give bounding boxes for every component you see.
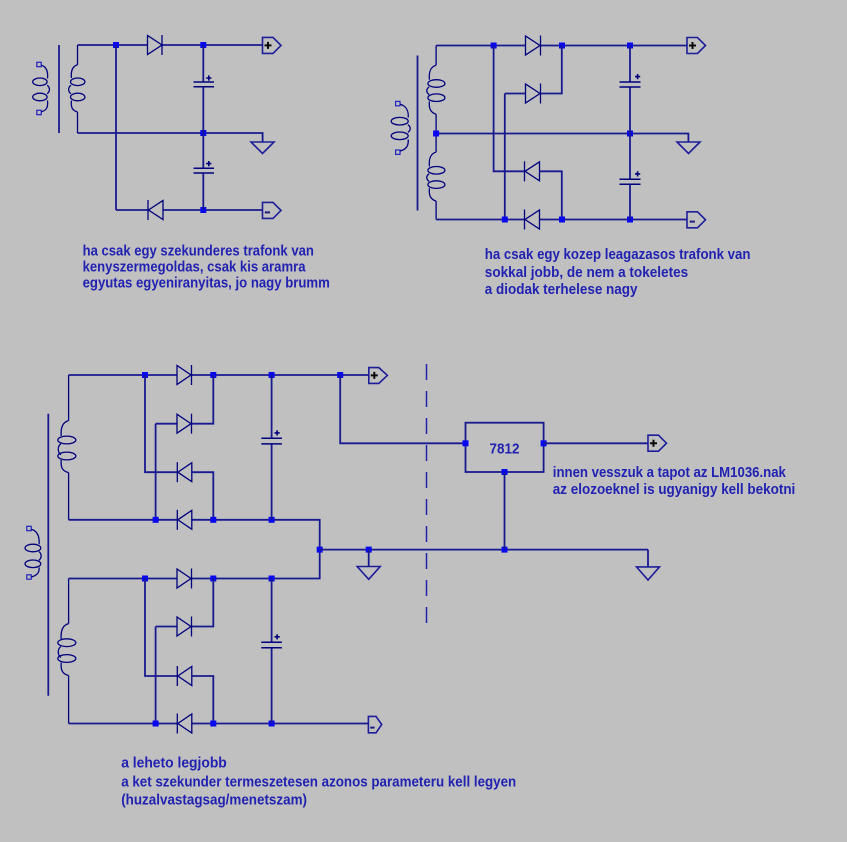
wire cap C6 branch lower <box>271 648 273 724</box>
wire row3 right vertical down to row4 <box>192 472 214 520</box>
svg-text:ha csak egy kozep leagazasos t: ha csak egy kozep leagazasos trafonk van <box>485 247 751 263</box>
wire bridge2 row2 right vertical up <box>192 579 214 627</box>
node top row cap <box>627 43 633 49</box>
node bridge2 row4 mid <box>210 721 216 727</box>
wire regulator feed down and right <box>340 375 465 443</box>
node center cap junction <box>627 131 633 137</box>
wire row3 right to vertical down <box>540 171 562 219</box>
node center tap <box>433 131 439 137</box>
regulator U1 7812 box <box>466 423 544 472</box>
plus sign terminal2 <box>689 42 696 49</box>
terminal negative bridge2 <box>368 716 381 732</box>
node bridge1 row1 regulator takeoff <box>337 372 343 378</box>
capacitor C5 <box>261 430 282 444</box>
node bridge1 row4 left <box>153 517 159 523</box>
svg-text:a leheto legjobb: a leheto legjobb <box>121 756 227 772</box>
diode D10 row4 left-pointing <box>177 510 192 530</box>
transformer T1 primary terminal top <box>37 62 41 66</box>
svg-text:egyutas egyeniranyitas, jo nag: egyutas egyeniranyitas, jo nagy brumm <box>83 276 330 292</box>
diode D7 row1 right-pointing <box>177 365 192 385</box>
plus sign regulator terminal <box>650 440 657 447</box>
transformer T3 core <box>47 414 49 696</box>
wire middle from secondary bottom to ground <box>78 133 263 142</box>
plus sign terminal1 <box>265 42 272 49</box>
wire top from D1 to positive terminal <box>162 44 263 46</box>
wire cap branch lower <box>202 173 204 210</box>
diode D3 top right-pointing <box>526 36 541 56</box>
transformer T2 core <box>417 56 419 211</box>
wire cap C6 branch upper <box>271 579 273 643</box>
transformer T3 primary winding <box>25 529 41 577</box>
diode D8 row2 right-pointing <box>177 414 192 434</box>
node top cap junction <box>200 42 206 48</box>
wire bottom row from D6 to negative terminal <box>540 219 688 221</box>
diode D6 bottom left-pointing <box>525 210 540 230</box>
wire center tap to ground corner <box>436 134 688 143</box>
transformer T3 primary terminal bottom <box>27 575 31 579</box>
capacitor C4 <box>620 171 641 184</box>
svg-text:innen vesszuk a tapot az LM103: innen vesszuk a tapot az LM1036.nak <box>553 465 787 481</box>
wire vertical from row1-left node to row3 <box>145 375 177 472</box>
transformer T2 secondary winding lower <box>427 134 445 220</box>
transformer T1 core <box>58 45 60 133</box>
wire bridge1 bottom row left <box>69 519 178 521</box>
ground symbol circuit1 <box>251 142 274 154</box>
wire ground2 stub <box>647 550 649 567</box>
diode D12 row2 right-pointing <box>177 617 192 637</box>
wire bridge1 top row to diode D7 <box>69 374 177 376</box>
minus sign terminal2 <box>690 221 695 223</box>
wire top row from D3 to positive terminal <box>541 45 688 47</box>
wire cap branch upper <box>629 46 631 83</box>
node top row left <box>491 43 497 49</box>
node bridge1 row4 cap <box>269 517 275 523</box>
node bridge1 row1 cap <box>269 372 275 378</box>
node bridge1 row4 mid <box>210 517 216 523</box>
node bridge2 row1 left <box>142 576 148 582</box>
transformer T3 secondary winding lower <box>58 579 76 724</box>
pin input 7812 <box>463 440 469 446</box>
wire row2 stub to diode D8 <box>156 423 177 425</box>
node middle junction <box>200 130 206 136</box>
pin gnd 7812 <box>502 469 508 475</box>
node center rail ground1 <box>366 547 372 553</box>
ground symbol circuit2 <box>677 142 700 154</box>
wire bridge2 row2 stub to diode D12 <box>156 626 177 628</box>
wire top row from secondary to diode D3 <box>436 45 525 47</box>
wire row2 right vertical up to row1 <box>192 375 214 424</box>
node bridge1 row1 mid <box>210 372 216 378</box>
wire bottom from vertical to diode D2 <box>116 209 148 211</box>
transformer T2 primary winding <box>391 104 410 151</box>
svg-text:(huzalvastagsag/menetszam): (huzalvastagsag/menetszam) <box>121 792 307 808</box>
node bottom row left <box>502 217 508 223</box>
wire row2 right to vertical up <box>541 46 562 94</box>
node center rail regulator gnd <box>502 547 508 553</box>
wire regulator gnd down <box>504 472 506 550</box>
terminal negative circuit2 <box>687 212 706 228</box>
pin output 7812 <box>541 440 547 446</box>
wire cap C5 branch upper <box>271 375 273 438</box>
wire ground1 stub <box>368 550 370 567</box>
terminal positive regulator output <box>648 435 667 451</box>
wire center rail <box>320 549 648 551</box>
terminal positive circuit2 <box>687 38 706 54</box>
wire cap branch lower <box>629 184 631 219</box>
wire bridge2 bottom row left <box>69 723 178 725</box>
diode D9 row3 left-pointing <box>177 462 192 482</box>
minus sign terminal1 <box>265 211 270 213</box>
wire cap C5 branch lower <box>271 444 273 520</box>
transformer T3 secondary winding upper <box>58 375 76 520</box>
dashed separator line <box>426 364 428 628</box>
node bottom row cap <box>627 217 633 223</box>
wire bridge2 row3 right vertical down <box>192 676 214 724</box>
wire vertical from top-left node down to row3 <box>494 46 525 172</box>
wire left vertical down to bottom row <box>115 45 117 210</box>
wire bridge2 top row to diode D11 <box>69 578 177 580</box>
svg-text:az elozoeknel is ugyanigy kell: az elozoeknel is ugyanigy kell bekotni <box>553 482 796 498</box>
svg-text:ha csak egy szekunderes trafon: ha csak egy szekunderes trafonk van <box>83 243 314 259</box>
wire bridge1 top row from D7 to positive terminal <box>192 374 369 376</box>
svg-text:7812: 7812 <box>490 441 520 457</box>
svg-text:a ket szekunder termeszetesen: a ket szekunder termeszetesen azonos par… <box>121 775 516 791</box>
diode D2 <box>148 200 163 220</box>
wire bridge1 bottom row right to center corner <box>192 520 320 550</box>
minus sign bridge2 terminal <box>370 727 374 729</box>
node bridge2 row1 cap <box>269 576 275 582</box>
wire bottom from D2 to negative terminal <box>163 209 263 211</box>
svg-text:kenyszermegoldas, csak kis ara: kenyszermegoldas, csak kis aramra <box>83 259 307 275</box>
wire vertical from bridge2 row1-left node to row3 <box>145 579 177 677</box>
node bridge2 row1 mid <box>210 576 216 582</box>
transformer T2 primary terminal top <box>396 101 400 105</box>
transformer T1 primary terminal bottom <box>37 110 41 114</box>
ground symbol left circuit3 <box>357 567 380 580</box>
wire bridge2 top row from D11 to center corner <box>192 550 320 579</box>
terminal positive circuit1 <box>263 37 282 53</box>
transformer T1 primary winding <box>33 65 50 112</box>
capacitor C1 <box>194 75 215 86</box>
diode D1 <box>148 35 163 55</box>
capacitor C6 <box>261 634 282 648</box>
plus sign bridge1 terminal <box>371 372 378 379</box>
node bottom junction <box>200 207 206 213</box>
wire top from secondary to diode D1 <box>78 44 148 46</box>
terminal negative circuit1 <box>263 202 282 218</box>
wire vertical row2-to-row4 <box>155 424 157 520</box>
wire row2 left stub to diode D4 <box>505 93 526 95</box>
wire regulator output <box>544 442 648 444</box>
terminal positive bridge1 <box>369 368 388 384</box>
node top row mid <box>559 43 565 49</box>
transformer T3 primary terminal top <box>27 526 31 530</box>
ground symbol right circuit3 <box>637 567 660 580</box>
diode D4 second row right-pointing <box>526 84 541 104</box>
svg-text:a diodak terhelese nagy: a diodak terhelese nagy <box>485 282 639 298</box>
transformer T2 primary terminal bottom <box>396 150 400 154</box>
wire vertical bridge2 row2-to-row4 <box>155 627 157 724</box>
node bridge2 row4 cap <box>269 721 275 727</box>
wire cap branch between <box>202 87 204 168</box>
capacitor C3 <box>620 74 641 87</box>
wire cap branch upper <box>202 45 204 82</box>
node top-left junction <box>113 42 119 48</box>
node bridge1 row1 left <box>142 372 148 378</box>
wire vertical row2-to-bottom through center <box>504 94 506 220</box>
diode D5 third row left-pointing <box>525 161 540 181</box>
transformer T2 secondary winding upper <box>427 46 445 134</box>
node bottom row mid <box>559 217 565 223</box>
node bridge2 row4 left <box>153 721 159 727</box>
node center rail join <box>317 547 323 553</box>
wire bridge2 bottom row to negative terminal <box>192 723 369 725</box>
capacitor C2 <box>194 161 215 173</box>
svg-text:sokkal jobb, de nem a tokelete: sokkal jobb, de nem a tokeletes <box>485 265 688 281</box>
diode D14 row4 left-pointing <box>177 714 192 734</box>
diode D11 row1 right-pointing <box>177 569 192 589</box>
transformer T1 secondary winding <box>69 45 85 133</box>
diode D13 row3 left-pointing <box>177 666 192 686</box>
wire bottom row from secondary to diode D6 <box>436 219 524 221</box>
wire cap branch middle <box>629 87 631 179</box>
